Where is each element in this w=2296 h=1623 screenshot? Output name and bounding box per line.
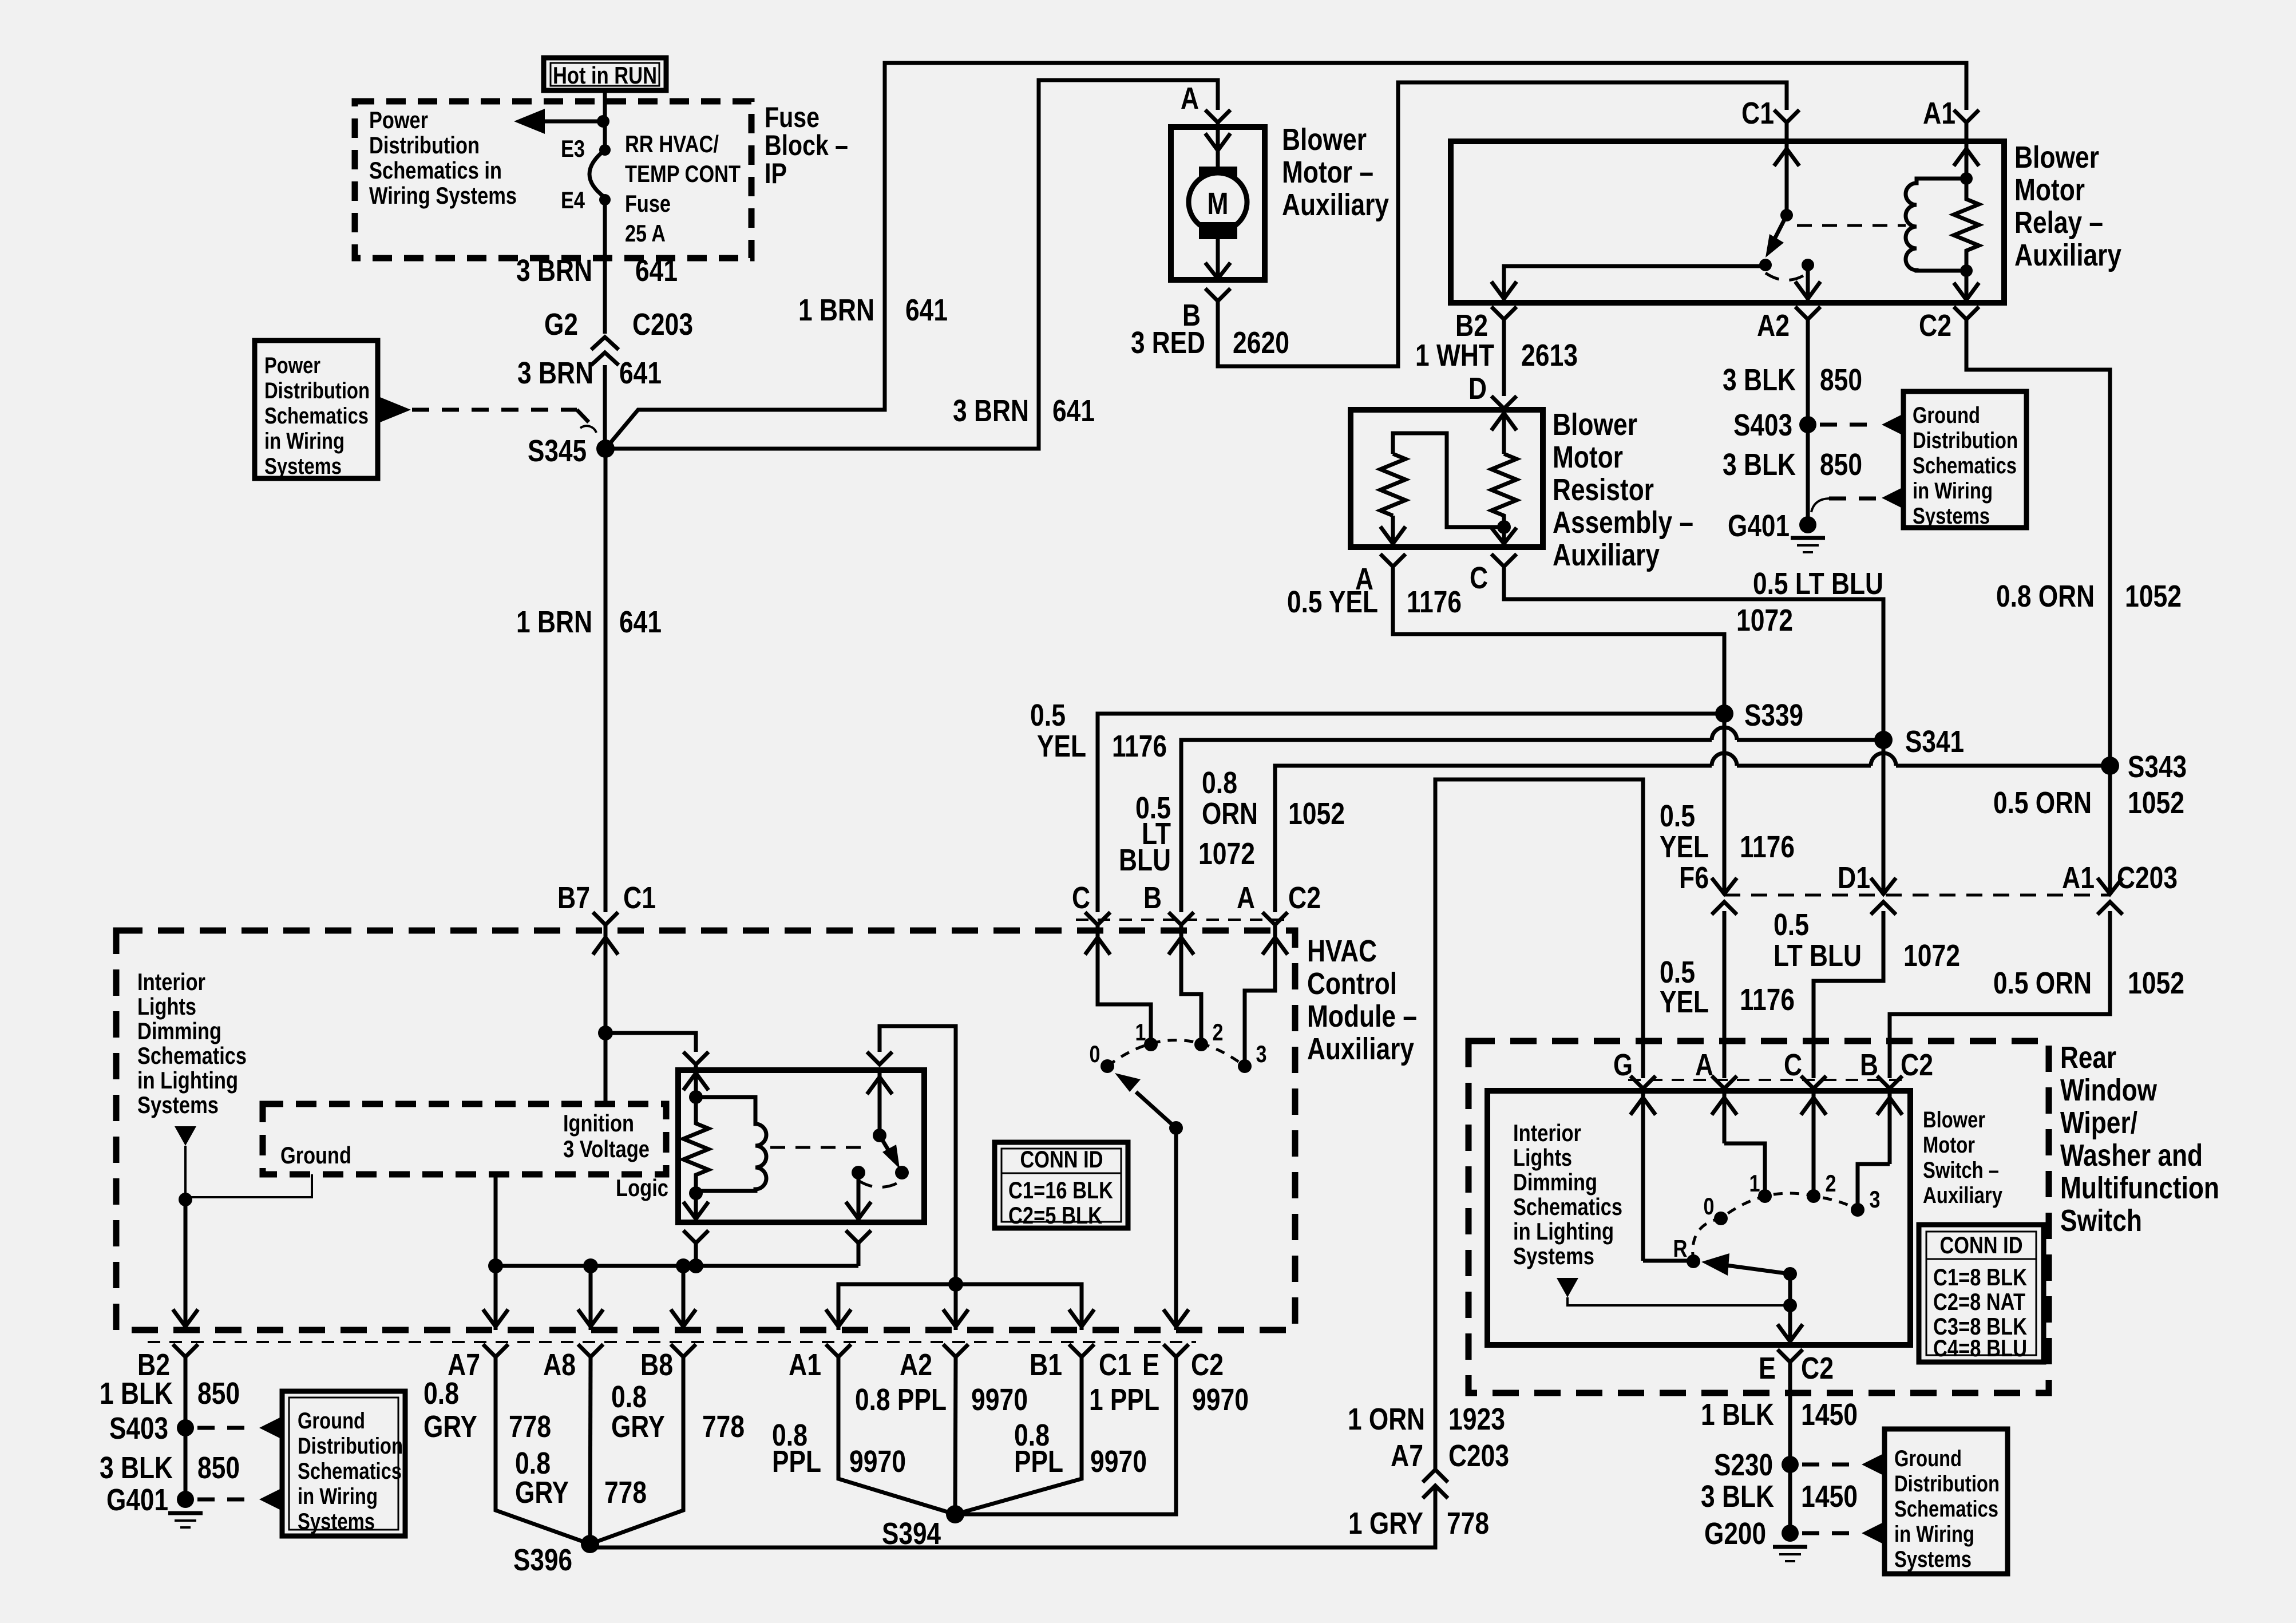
svg-text:Relay –: Relay – bbox=[2014, 205, 2103, 240]
svg-text:0.8 ORN: 0.8 ORN bbox=[1996, 579, 2095, 613]
svg-text:3 BRN: 3 BRN bbox=[953, 394, 1029, 428]
svg-text:Schematics: Schematics bbox=[1894, 1497, 1998, 1522]
svg-text:in Lighting: in Lighting bbox=[1513, 1218, 1614, 1245]
svg-text:TEMP CONT: TEMP CONT bbox=[625, 160, 741, 187]
svg-text:1 PPL: 1 PPL bbox=[1089, 1383, 1159, 1417]
connector A7 C203 double chevron bbox=[1423, 1470, 1448, 1498]
svg-text:Module –: Module – bbox=[1307, 999, 1417, 1034]
internal relay coil entry arrow bbox=[683, 1064, 708, 1097]
svg-text:YEL: YEL bbox=[1037, 729, 1086, 763]
connector crossing D1 arrow and chevrons bbox=[1871, 878, 1896, 915]
wire 641 S345 branch up-right to relay A1 bbox=[605, 63, 1966, 449]
svg-text:S341: S341 bbox=[1905, 725, 1964, 759]
svg-text:in Wiring: in Wiring bbox=[298, 1484, 378, 1509]
wire 1176 resistor A to S339 bbox=[1393, 567, 1724, 714]
resistor R right element bbox=[1491, 454, 1517, 527]
label 3 BLK 850 (A2) bbox=[1723, 363, 1862, 397]
wire 1072 resistor C to S341 bbox=[1504, 567, 1883, 740]
svg-text:0.5: 0.5 bbox=[1660, 955, 1695, 989]
svg-text:PPL: PPL bbox=[1014, 1444, 1063, 1479]
pin B2 relay bbox=[1455, 307, 1517, 343]
label Blower Motor Relay - Auxiliary bbox=[2014, 140, 2121, 272]
rotary contact 1 bbox=[1135, 1019, 1158, 1051]
internal relay chevron (coil feed) bbox=[683, 1052, 708, 1064]
dashed reference G401 left bbox=[197, 1498, 257, 1502]
wire bus to pin B8 bbox=[671, 1266, 696, 1330]
label Blower Motor Switch - Auxiliary bbox=[1923, 1107, 2003, 1208]
wire 1176 S339 down to C203 F6 bbox=[1723, 714, 1727, 895]
rotary switch feed A bbox=[1245, 912, 1288, 1066]
relay coil L bbox=[1906, 179, 1966, 271]
switch A entry to contact 1 bbox=[1712, 1091, 1765, 1196]
wire 1176 F6 to switch pin A bbox=[1723, 911, 1727, 1078]
svg-text:778: 778 bbox=[604, 1475, 647, 1510]
wire 9970 A2 to S394 bbox=[955, 1357, 956, 1514]
resistor assembly box bbox=[1351, 410, 1543, 547]
svg-text:Ground: Ground bbox=[1894, 1446, 1962, 1471]
svg-text:641: 641 bbox=[619, 356, 662, 390]
ground G401 bbox=[1728, 509, 1825, 552]
svg-text:C2: C2 bbox=[1901, 1048, 1933, 1082]
internal relay contact dashed arc bbox=[858, 1181, 902, 1187]
svg-text:Distribution: Distribution bbox=[1894, 1471, 2000, 1497]
svg-text:A2: A2 bbox=[900, 1348, 932, 1382]
internal dashed box Ground / Ignition 3 Voltage bbox=[263, 1104, 666, 1174]
pin C1 relay bbox=[1741, 96, 1799, 141]
svg-text:9970: 9970 bbox=[971, 1383, 1028, 1417]
svg-text:Wiring Systems: Wiring Systems bbox=[369, 182, 517, 209]
svg-text:IP: IP bbox=[765, 157, 787, 189]
label 1 BLK 850 bbox=[100, 1376, 240, 1411]
dashed reference S230 bbox=[1802, 1463, 1859, 1467]
svg-text:3: 3 bbox=[1870, 1186, 1881, 1213]
svg-text:Auxiliary: Auxiliary bbox=[1923, 1183, 2003, 1208]
svg-text:1176: 1176 bbox=[1112, 729, 1167, 763]
svg-text:3 Voltage: 3 Voltage bbox=[563, 1135, 650, 1162]
box Power Distribution Schematics in Wiring Systems bbox=[255, 341, 378, 479]
svg-text:3 BLK: 3 BLK bbox=[1723, 363, 1796, 397]
svg-text:A2: A2 bbox=[1757, 308, 1790, 343]
svg-text:1 WHT: 1 WHT bbox=[1415, 338, 1494, 373]
wire A2 node to pin A2 bbox=[943, 1284, 968, 1330]
rotary switch feed B bbox=[1169, 912, 1201, 1044]
svg-text:Systems: Systems bbox=[1513, 1242, 1594, 1269]
svg-text:C2=8 NAT: C2=8 NAT bbox=[1933, 1288, 2025, 1315]
pin A8 chevron bbox=[543, 1344, 603, 1382]
pin B chevron (switch) bbox=[1860, 1048, 1902, 1091]
svg-text:BLU: BLU bbox=[1119, 843, 1171, 877]
svg-text:E4: E4 bbox=[561, 187, 585, 213]
svg-text:A1: A1 bbox=[789, 1348, 821, 1382]
svg-text:C1=8 BLK: C1=8 BLK bbox=[1933, 1264, 2027, 1291]
rotary blade HVAC bbox=[1115, 1073, 1176, 1128]
label 0.5 LT BLU 1072 (below D1) bbox=[1774, 908, 1960, 973]
svg-text:1: 1 bbox=[1135, 1019, 1146, 1046]
svg-text:Wiper/: Wiper/ bbox=[2060, 1106, 2137, 1140]
pin B blower motor bbox=[1182, 288, 1230, 332]
svg-text:1072: 1072 bbox=[1903, 939, 1960, 973]
node A2 output bbox=[948, 1277, 963, 1292]
dashed reference S403 left bbox=[197, 1426, 257, 1430]
svg-text:E3: E3 bbox=[561, 135, 585, 162]
pin A resistor bbox=[1355, 554, 1406, 596]
switch contact 2 bbox=[1807, 1170, 1836, 1203]
switch pivot bbox=[1783, 1267, 1797, 1281]
svg-text:G2: G2 bbox=[544, 307, 578, 342]
svg-text:C203: C203 bbox=[632, 307, 693, 342]
wire 778 A7 to S396 bbox=[496, 1357, 590, 1544]
wire 641 S345 branch right to blower motor A bbox=[605, 80, 1218, 449]
svg-text:CONN ID: CONN ID bbox=[1020, 1146, 1103, 1173]
svg-text:9970: 9970 bbox=[849, 1444, 906, 1479]
wire switch output loop to A2 node bbox=[880, 1026, 956, 1284]
internal relay contact right bbox=[895, 1166, 909, 1179]
label 1 BRN 641 (to HVAC) bbox=[516, 605, 662, 639]
svg-text:Distribution: Distribution bbox=[1913, 428, 2018, 453]
svg-text:Auxiliary: Auxiliary bbox=[1282, 188, 1389, 222]
svg-text:S394: S394 bbox=[882, 1517, 941, 1551]
label 1 GRY 778 bbox=[1348, 1506, 1489, 1541]
svg-text:Schematics: Schematics bbox=[264, 403, 369, 429]
switch contact 1 bbox=[1749, 1170, 1772, 1203]
svg-text:C203: C203 bbox=[1448, 1439, 1509, 1473]
svg-text:Fuse: Fuse bbox=[625, 190, 671, 217]
switch contact 3 bbox=[1851, 1186, 1881, 1217]
node E junction bbox=[1783, 1299, 1797, 1312]
wire B2 node to pin B2 bbox=[173, 1200, 198, 1330]
svg-text:9970: 9970 bbox=[1192, 1383, 1249, 1417]
label 3 BLK 850 (below S403) bbox=[1723, 448, 1862, 482]
CONN ID box (switch) bbox=[1919, 1225, 2044, 1362]
arrow feed to other circuits bbox=[514, 109, 603, 134]
pin A7 chevron bbox=[448, 1344, 508, 1382]
label A1 C203 bbox=[2062, 861, 2178, 895]
svg-text:GRY: GRY bbox=[611, 1410, 665, 1444]
svg-text:Schematics: Schematics bbox=[298, 1459, 402, 1484]
internal relay coil bottom node bbox=[689, 1186, 703, 1200]
svg-text:B: B bbox=[1860, 1048, 1878, 1082]
wire 778 B8 to S396 bbox=[590, 1357, 683, 1544]
wire 1072 D1 to switch pin C bbox=[1814, 911, 1883, 1078]
reference arrow G200 bbox=[1862, 1523, 1882, 1543]
svg-text:850: 850 bbox=[197, 1451, 240, 1485]
svg-text:F6: F6 bbox=[1679, 861, 1709, 895]
svg-text:2620: 2620 bbox=[1233, 326, 1289, 360]
label A7 C203 bbox=[1391, 1439, 1509, 1473]
pin B8 chevron bbox=[640, 1344, 696, 1382]
label 0.5 YEL 1176 (resistor A) bbox=[1287, 585, 1462, 619]
wire ground logic down to bus bbox=[494, 1174, 498, 1266]
svg-text:Rear: Rear bbox=[2060, 1040, 2116, 1075]
label 0.5 YEL 1176 (above F6) bbox=[1660, 799, 1795, 864]
svg-text:3: 3 bbox=[1256, 1040, 1267, 1067]
svg-text:Power: Power bbox=[264, 353, 320, 378]
arrow pin B1 bbox=[1069, 1309, 1094, 1327]
svg-text:Multifunction: Multifunction bbox=[2060, 1171, 2219, 1205]
label Interior Lights Dimming Schematics in Lighting Systems (left) bbox=[137, 968, 247, 1118]
blower motor box bbox=[1171, 127, 1265, 280]
relay switch common from C1 bbox=[1774, 141, 1799, 221]
svg-text:1 BLK: 1 BLK bbox=[100, 1376, 173, 1411]
wire 1052 S343 down to C203 A1 bbox=[2108, 766, 2112, 895]
svg-text:D: D bbox=[1468, 371, 1487, 406]
svg-text:1 BRN: 1 BRN bbox=[516, 605, 592, 639]
switch rotary dashed arc bbox=[1693, 1193, 1858, 1261]
fuse block dashed box bbox=[355, 101, 751, 258]
wire 2613 B2 to resistor D bbox=[1502, 319, 1506, 396]
svg-text:Auxiliary: Auxiliary bbox=[1553, 538, 1660, 572]
svg-text:1052: 1052 bbox=[2128, 966, 2184, 1000]
svg-text:A1: A1 bbox=[2062, 861, 2095, 895]
pin E4 bbox=[561, 187, 611, 213]
svg-text:850: 850 bbox=[197, 1376, 240, 1411]
internal relay coil bbox=[696, 1097, 766, 1191]
node bus A8 bbox=[583, 1258, 598, 1273]
wire bus to pin A8 bbox=[578, 1266, 603, 1330]
resistor D entry arrow bbox=[1491, 410, 1517, 454]
label 0.5 ORN 1052 (above C203) bbox=[1993, 786, 2184, 820]
pin A chevron (switch) bbox=[1695, 1048, 1737, 1091]
label B7 C1 bbox=[557, 881, 656, 915]
svg-text:2: 2 bbox=[1213, 1019, 1224, 1046]
svg-text:Interior: Interior bbox=[137, 968, 205, 995]
reference arrow at ground box (S403) bbox=[1882, 414, 1902, 435]
rotary switch feed C bbox=[1085, 912, 1151, 1044]
svg-text:D1: D1 bbox=[1838, 861, 1870, 895]
svg-text:Systems: Systems bbox=[1894, 1547, 1972, 1572]
node bus A7 bbox=[488, 1258, 503, 1273]
svg-text:Motor: Motor bbox=[1923, 1133, 1975, 1158]
box Ground Distribution Schematics in Wiring Systems (bottom left) bbox=[282, 1391, 405, 1536]
wire 9970 E to S394 bbox=[955, 1357, 1176, 1514]
svg-text:B8: B8 bbox=[640, 1348, 673, 1382]
label RR HVAC/TEMP CONT Fuse 25 A bbox=[625, 130, 741, 247]
wire 1052 HVAC pin A to S343 (hops S339 S341) bbox=[1275, 753, 2110, 912]
svg-text:Switch: Switch bbox=[2060, 1204, 2142, 1238]
label 3 RED 2620 bbox=[1131, 326, 1289, 360]
svg-text:S343: S343 bbox=[2128, 750, 2187, 784]
node bus coil pin bbox=[688, 1258, 703, 1273]
svg-text:Schematics in: Schematics in bbox=[369, 157, 502, 184]
relay coil out to C2 bbox=[1954, 271, 1979, 303]
label 3 BRN 641 (above C203) bbox=[516, 254, 678, 288]
Hot in RUN box bbox=[544, 58, 666, 90]
svg-text:641: 641 bbox=[1052, 394, 1095, 428]
svg-text:E: E bbox=[1759, 1351, 1776, 1386]
svg-text:1176: 1176 bbox=[1740, 830, 1795, 864]
label 0.8 PPL 9970 (A2) bbox=[855, 1383, 1028, 1417]
wire 1072 S341 down to C203 D1 bbox=[1882, 740, 1886, 895]
svg-text:0: 0 bbox=[1090, 1040, 1101, 1067]
svg-text:Washer and: Washer and bbox=[2060, 1138, 2203, 1173]
internal ground bus bbox=[496, 1264, 858, 1268]
svg-text:641: 641 bbox=[635, 254, 678, 288]
svg-text:C2: C2 bbox=[1801, 1351, 1834, 1386]
label Blower Motor - Auxiliary bbox=[1282, 122, 1389, 222]
switch blade bbox=[1701, 1253, 1790, 1276]
reference arrow S403 left bbox=[259, 1418, 280, 1438]
svg-text:Control: Control bbox=[1307, 967, 1397, 1001]
wire 1072 HVAC pin B to S341 (hops S339) bbox=[1181, 727, 1883, 912]
svg-text:YEL: YEL bbox=[1660, 985, 1709, 1019]
svg-text:Dimming: Dimming bbox=[137, 1018, 221, 1044]
svg-text:C1: C1 bbox=[1741, 96, 1774, 130]
svg-text:1052: 1052 bbox=[2128, 786, 2184, 820]
svg-text:C203: C203 bbox=[2117, 861, 2178, 895]
svg-text:778: 778 bbox=[702, 1410, 745, 1444]
label 0.8 GRY 778 (B8) bbox=[611, 1380, 745, 1444]
svg-text:Distribution: Distribution bbox=[369, 132, 480, 159]
svg-text:GRY: GRY bbox=[423, 1410, 477, 1444]
dashed reference line to S345 bbox=[412, 408, 577, 412]
svg-text:G200: G200 bbox=[1704, 1517, 1766, 1551]
pin B7 entry arrow bbox=[593, 931, 618, 1033]
svg-text:1 ORN: 1 ORN bbox=[1348, 1402, 1425, 1436]
svg-text:0.8: 0.8 bbox=[1202, 766, 1237, 800]
wire Hot in RUN to fuse bbox=[603, 90, 607, 146]
reference arrow from power distribution box bbox=[380, 397, 411, 422]
wire bus to pin A7 bbox=[483, 1266, 508, 1330]
svg-text:C: C bbox=[1784, 1048, 1802, 1082]
svg-text:A: A bbox=[1237, 881, 1255, 915]
label G2 C203 bbox=[544, 307, 693, 342]
wire 850 S403 to G401 bbox=[1806, 425, 1810, 525]
svg-text:B7: B7 bbox=[557, 881, 590, 915]
pin A blower motor bbox=[1181, 81, 1230, 127]
svg-text:1 BRN: 1 BRN bbox=[798, 293, 874, 327]
svg-text:in Wiring: in Wiring bbox=[264, 429, 345, 454]
relay coil resistor bbox=[1954, 179, 1979, 271]
svg-text:C4=8 BLU: C4=8 BLU bbox=[1933, 1335, 2027, 1361]
internal relay switch pivot bbox=[873, 1129, 886, 1142]
internal relay actuation dashed link bbox=[770, 1146, 870, 1149]
wire 778 A8 to S396 bbox=[590, 1357, 591, 1544]
svg-text:Ground: Ground bbox=[1913, 403, 1980, 428]
wire triangle to E node bbox=[1567, 1297, 1790, 1305]
svg-text:641: 641 bbox=[619, 605, 662, 639]
label 0.8 ORN 1052 (C2 wire) bbox=[1996, 579, 2182, 613]
svg-text:A1: A1 bbox=[1923, 96, 1955, 130]
pin E chevron (switch) bbox=[1759, 1349, 1834, 1386]
connector C203 double chevron bbox=[591, 337, 619, 365]
pin C chevron (switch) bbox=[1784, 1048, 1826, 1091]
label Ignition 3 Voltage bbox=[563, 1110, 650, 1162]
reference arrow at ground box (G401) bbox=[1882, 488, 1902, 508]
pin G chevron bbox=[1613, 1048, 1656, 1091]
internal relay box bbox=[678, 1070, 924, 1222]
splice S403 bbox=[1733, 408, 1816, 442]
internal relay coil exit arrow bbox=[683, 1193, 708, 1222]
svg-text:1072: 1072 bbox=[1736, 603, 1793, 638]
splice S345 bbox=[528, 434, 615, 468]
svg-text:2: 2 bbox=[1826, 1170, 1836, 1197]
svg-text:Ground: Ground bbox=[298, 1408, 365, 1434]
svg-text:Interior: Interior bbox=[1513, 1119, 1581, 1146]
internal relay switch top chevron bbox=[867, 1052, 892, 1064]
label 0.8 GRY 778 (A7) bbox=[423, 1376, 551, 1444]
svg-text:S345: S345 bbox=[528, 434, 587, 468]
arrow pin A1 bbox=[826, 1309, 851, 1327]
switch contact 0 bbox=[1704, 1193, 1728, 1225]
svg-text:Blower: Blower bbox=[2014, 140, 2099, 175]
label 3 BLK 850 (left) bbox=[100, 1451, 240, 1485]
connector C1 thin dashed line (HVAC bottom) bbox=[148, 1341, 1196, 1343]
svg-text:Systems: Systems bbox=[298, 1509, 375, 1534]
svg-text:Hot in RUN: Hot in RUN bbox=[553, 62, 657, 89]
wire 1450 S230 to G200 bbox=[1788, 1464, 1792, 1533]
svg-text:Auxiliary: Auxiliary bbox=[2014, 238, 2121, 272]
svg-text:A: A bbox=[1181, 81, 1199, 116]
label 1 WHT 2613 bbox=[1415, 338, 1578, 373]
fuse F RR HVAC/TEMP CONT 25A bbox=[589, 150, 605, 197]
pin A2 chevron bbox=[900, 1344, 968, 1382]
pin E3 bbox=[561, 135, 611, 162]
wire switch common to pin E bbox=[1778, 1274, 1803, 1345]
svg-text:Window: Window bbox=[2060, 1073, 2158, 1107]
svg-text:850: 850 bbox=[1820, 448, 1862, 482]
svg-text:1072: 1072 bbox=[1198, 837, 1255, 871]
svg-text:C2: C2 bbox=[1191, 1348, 1224, 1382]
dashed reference G401 to ground box bbox=[1811, 498, 1879, 512]
svg-text:0.8: 0.8 bbox=[423, 1376, 459, 1411]
svg-text:0.5 YEL: 0.5 YEL bbox=[1287, 585, 1378, 619]
svg-text:0.5: 0.5 bbox=[1660, 799, 1695, 833]
box Ground Distribution Schematics in Wiring Systems (top right) bbox=[1903, 391, 2026, 529]
relay contact to A2 bbox=[1795, 259, 1820, 303]
svg-text:0.8: 0.8 bbox=[611, 1380, 647, 1414]
node B7 branch bbox=[598, 1026, 613, 1040]
resistor A exit arrow bbox=[1380, 516, 1406, 547]
label Blower Motor Resistor Assembly - Auxiliary bbox=[1553, 407, 1693, 572]
internal relay switch feed arrow bbox=[867, 1070, 892, 1135]
pin B2 chevron bbox=[137, 1344, 198, 1393]
internal relay contact left bbox=[852, 1166, 865, 1179]
svg-text:778: 778 bbox=[1447, 1506, 1489, 1541]
label 3 BLK 1450 bbox=[1701, 1479, 1858, 1514]
svg-text:Motor: Motor bbox=[1553, 440, 1623, 474]
connector crossing F6 arrow and chevrons bbox=[1712, 878, 1737, 915]
label 0.5 YEL (pin C wire) bbox=[1030, 698, 1167, 763]
wire 1450 pin E to S230 bbox=[1788, 1362, 1792, 1464]
svg-text:YEL: YEL bbox=[1660, 830, 1709, 864]
pin A1 relay bbox=[1923, 96, 1979, 141]
svg-text:A7: A7 bbox=[1391, 1439, 1423, 1473]
pin D resistor chevron bbox=[1491, 396, 1517, 409]
motor M1 blower motor auxiliary bbox=[1189, 127, 1247, 280]
svg-text:0.5: 0.5 bbox=[1030, 698, 1066, 733]
svg-text:C2: C2 bbox=[1919, 308, 1951, 343]
label 0.5 ORN 1052 (below A1) bbox=[1993, 966, 2184, 1000]
relay coil branch from A1 bbox=[1954, 141, 1979, 277]
rotary dashed arc bbox=[1107, 1040, 1245, 1067]
svg-text:E: E bbox=[1142, 1348, 1159, 1382]
dashed reference S403 to ground box bbox=[1820, 423, 1879, 427]
label 3 BRN 641 (motor feed) bbox=[953, 394, 1095, 428]
svg-text:Ground: Ground bbox=[280, 1142, 351, 1169]
svg-text:9970: 9970 bbox=[1090, 1444, 1147, 1479]
resistor inner link wire bbox=[1393, 433, 1504, 527]
relay switch blade bbox=[1765, 215, 1787, 258]
svg-text:Blower: Blower bbox=[1553, 407, 1637, 442]
svg-text:Systems: Systems bbox=[1913, 504, 1990, 529]
ground reference triangle (switch) bbox=[1557, 1278, 1578, 1297]
svg-text:HVAC: HVAC bbox=[1307, 934, 1377, 968]
pin B7 chevron bbox=[593, 912, 618, 931]
rotary contact 0 bbox=[1090, 1040, 1115, 1073]
dashed reference G200 bbox=[1802, 1531, 1859, 1535]
connector crossing A1 arrow and chevrons bbox=[2097, 878, 2123, 915]
svg-text:C2=5 BLK: C2=5 BLK bbox=[1008, 1202, 1102, 1229]
